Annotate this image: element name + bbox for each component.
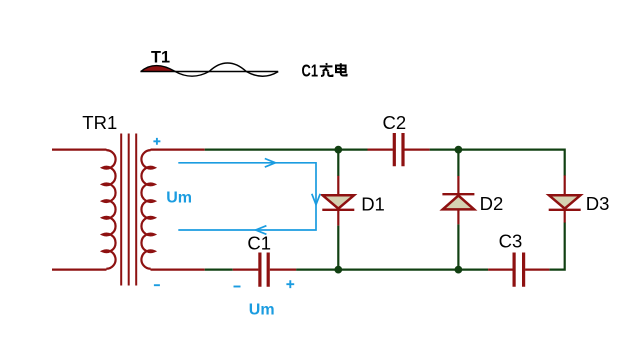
- diode D3 cathode bar: [549, 209, 581, 211]
- diode D3 anode lead: [564, 175, 566, 196]
- capacitor C1 plates: [260, 253, 268, 287]
- diode D1 triangle: [323, 195, 354, 208]
- capacitor C3 plates: [514, 253, 524, 287]
- diode D1 cathode lead: [337, 210, 339, 226]
- wire: bottom-right corner C3 to D3: [549, 222, 564, 269]
- minus mark at secondary bottom: [154, 284, 160, 286]
- wire: D1 cathode down to bottom junction: [337, 226, 339, 270]
- transformer TR1 secondary pin wires: [151, 150, 205, 270]
- transformer TR1 primary winding: [103, 150, 116, 269]
- transformer TR1 secondary winding: [141, 150, 154, 269]
- waveform icon: axis line: [140, 71, 278, 73]
- diode D2 cathode lead: [457, 176, 459, 194]
- svg-text:C3: C3: [499, 231, 523, 252]
- capacitor C1 leads: [233, 269, 296, 271]
- capacitor C3 leads: [488, 269, 549, 271]
- minus mark left of C1: [234, 286, 241, 288]
- wire: bottom rail transformer to C1: [205, 269, 233, 271]
- waveform icon: filled first half-cycle: [141, 66, 175, 72]
- diode D1 anode lead: [337, 176, 339, 196]
- wire: top rail from transformer to C2 left lead: [205, 149, 368, 151]
- plus mark at secondary top: [153, 138, 160, 145]
- transformer TR1 core: [121, 134, 136, 286]
- wire: top rail from C2 to top-right corner down to D3: [430, 150, 565, 176]
- junction at bottom of D1: [334, 266, 342, 274]
- wire: D2 anode down to bottom junction: [457, 224, 459, 269]
- diode D2 triangle (pointing up): [443, 196, 474, 210]
- plus mark right of C1: [286, 280, 294, 288]
- svg-text:Um: Um: [249, 302, 275, 319]
- diode D3 triangle: [549, 195, 580, 208]
- diode D1 cathode bar: [322, 209, 354, 211]
- capacitor C2 leads: [368, 149, 430, 151]
- wire: top junction down to D2 cathode: [457, 150, 459, 177]
- svg-text:Um: Um: [166, 190, 192, 207]
- current arrow right (top of loop): [265, 159, 276, 168]
- junction at top of D1: [334, 146, 342, 154]
- svg-text:C1: C1: [247, 233, 271, 254]
- svg-text:D3: D3: [586, 193, 610, 214]
- junction at bottom of D2: [455, 266, 463, 274]
- caption hanzi 电: [336, 63, 347, 75]
- transformer TR1 primary pin wires: [52, 150, 107, 270]
- junction at top of D2: [455, 146, 463, 154]
- current arrow down (right of loop): [312, 194, 320, 205]
- svg-text:C2: C2: [383, 112, 407, 133]
- svg-text:C1: C1: [302, 60, 319, 80]
- current loop path (charging C1): [178, 163, 316, 230]
- diode D2 anode lead: [457, 209, 459, 224]
- diode D2 cathode bar: [442, 193, 474, 195]
- current arrow left (bottom of loop): [256, 226, 267, 235]
- svg-text:TR1: TR1: [82, 112, 117, 133]
- svg-text:D2: D2: [480, 193, 504, 214]
- wire: bottom rail C1 to C3: [296, 269, 488, 271]
- caption hanzi 充: [320, 63, 333, 76]
- svg-text:D1: D1: [361, 193, 385, 214]
- wire: top junction down to D1 anode: [337, 150, 339, 176]
- waveform icon: sine curve: [141, 63, 278, 76]
- capacitor C2 plates: [394, 133, 403, 166]
- diode D3 cathode lead: [564, 210, 566, 223]
- svg-text:T1: T1: [151, 49, 170, 67]
